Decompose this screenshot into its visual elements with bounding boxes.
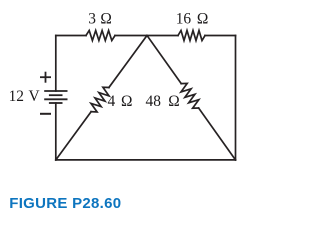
svg-text:12 V: 12 V bbox=[9, 88, 40, 105]
caption FIGURE P28.60 bbox=[9, 195, 121, 212]
svg-text:3 Ω: 3 Ω bbox=[88, 11, 111, 28]
wire left vertical above battery bbox=[55, 36, 57, 92]
resistor 48 Ω bbox=[181, 83, 199, 108]
wire right diagonal upper (node A to resistor) bbox=[147, 36, 181, 84]
battery polarity − sign bbox=[40, 113, 51, 115]
battery polarity + sign bbox=[40, 72, 51, 83]
svg-text:48 Ω: 48 Ω bbox=[146, 93, 180, 110]
wire bottom bbox=[56, 159, 236, 161]
wire top-middle segment bbox=[115, 35, 178, 37]
wire left vertical below battery bbox=[55, 103, 57, 160]
svg-text:4 Ω: 4 Ω bbox=[108, 93, 133, 110]
wire top-right segment bbox=[205, 35, 236, 37]
wire right diagonal lower (resistor to bottom-right corner) bbox=[199, 108, 236, 160]
resistor 3 Ω bbox=[86, 31, 115, 41]
wire right vertical bbox=[235, 36, 237, 160]
svg-text:16 Ω: 16 Ω bbox=[176, 11, 209, 28]
wire top-left segment bbox=[56, 35, 86, 37]
battery 12 V plates bbox=[44, 91, 67, 103]
resistor 16 Ω bbox=[178, 31, 205, 41]
wire left diagonal upper (node A to resistor) bbox=[109, 36, 147, 88]
resistor 4 Ω bbox=[91, 87, 109, 112]
wire left diagonal lower (resistor to bottom-left corner) bbox=[56, 112, 91, 160]
